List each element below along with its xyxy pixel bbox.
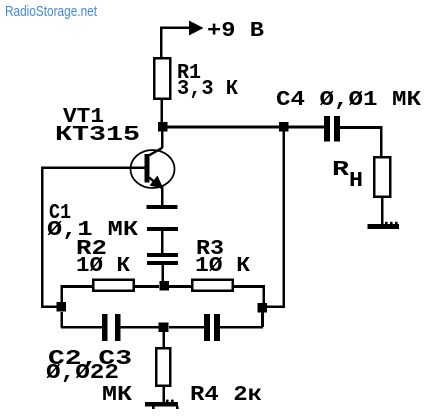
svg-text:Ø,Ø22: Ø,Ø22 <box>46 362 119 385</box>
svg-text:1Ø К: 1Ø К <box>195 255 250 278</box>
svg-text:1Ø К: 1Ø К <box>76 255 130 278</box>
svg-text:RadioStorage.net: RadioStorage.net <box>5 3 98 20</box>
svg-text:КТ315: КТ315 <box>55 124 140 147</box>
svg-text:3,3 К: 3,3 К <box>177 78 238 101</box>
svg-text:МК: МК <box>102 384 132 407</box>
svg-text:C4 Ø,Ø1 МК: C4 Ø,Ø1 МК <box>276 89 421 112</box>
svg-text:Н: Н <box>349 170 363 193</box>
svg-text:R4 2к: R4 2к <box>190 384 262 407</box>
svg-text:R: R <box>332 159 350 182</box>
svg-text:+9 В: +9 В <box>207 20 264 43</box>
